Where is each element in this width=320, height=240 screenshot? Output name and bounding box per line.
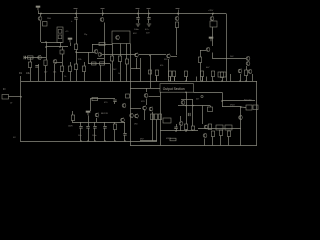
wire — [180, 116, 182, 121]
resistor R18 — [244, 70, 247, 76]
wire VAS drop — [150, 56, 152, 89]
resistor R12 — [74, 44, 77, 50]
wire — [88, 128, 90, 141]
wire — [76, 50, 78, 59]
wire right edge drop — [256, 81, 258, 146]
transistor Q9 — [135, 53, 139, 58]
transistor Q18 — [121, 118, 125, 123]
wire — [171, 56, 177, 58]
resistor R30 — [150, 114, 153, 120]
transistor Q23 — [130, 113, 134, 118]
wire — [148, 19, 150, 23]
wire — [124, 135, 126, 141]
diode D3 mark — [58, 30, 62, 34]
wire — [240, 128, 242, 146]
capacitor C9 — [93, 127, 96, 129]
label net name — [74, 8, 78, 10]
svg-text:Speaker: Speaker — [244, 99, 252, 102]
wire emitter row — [88, 63, 110, 65]
node rail-Q4 — [102, 13, 104, 15]
resistor R6 — [28, 62, 31, 68]
transistor Q12 — [206, 47, 210, 52]
wire — [136, 58, 138, 69]
wire — [156, 134, 158, 141]
resistor R9 — [68, 66, 71, 72]
connector J1 input jack — [2, 95, 9, 100]
wire — [104, 59, 106, 64]
wire input column — [20, 81, 22, 141]
wire — [76, 58, 78, 64]
diode D5 pair — [99, 42, 105, 45]
wire — [181, 99, 193, 101]
wire — [200, 50, 202, 57]
capacitor C6 — [147, 18, 150, 20]
wire box top right segment — [194, 92, 223, 94]
resistor R42 box — [208, 107, 213, 112]
wire — [114, 102, 116, 104]
wire — [228, 137, 230, 146]
resistor R20 — [168, 71, 171, 77]
svg-text:+35V: +35V — [208, 10, 214, 12]
wire stub — [196, 77, 198, 82]
resistor R23 — [200, 71, 203, 77]
node rail-Q8 — [177, 13, 179, 15]
resistor R44 — [148, 70, 151, 74]
wire net tick — [76, 10, 78, 14]
wire — [62, 47, 64, 50]
wire — [212, 27, 214, 46]
diode D1 box — [60, 50, 64, 54]
wire — [124, 122, 126, 133]
wire left bias row — [24, 57, 46, 59]
node rail-C6 — [148, 13, 150, 15]
capacitor C7 — [79, 127, 82, 129]
wire output row — [222, 106, 241, 108]
resistor R36 — [208, 124, 211, 130]
transistor Q16 — [248, 69, 252, 74]
wire — [38, 68, 40, 81]
wire — [176, 124, 178, 127]
wire — [144, 110, 146, 120]
resistor R17 — [198, 57, 201, 63]
capacitor C5 — [136, 18, 139, 20]
transistor Q21 — [143, 106, 147, 111]
wire rail right drop — [226, 14, 228, 82]
resistor R16 box — [210, 21, 217, 27]
wire — [70, 62, 72, 66]
capacitor C2 — [24, 56, 26, 59]
wire — [168, 59, 170, 81]
wire net tick — [138, 10, 140, 14]
resistor R46 — [118, 56, 121, 62]
wire — [212, 137, 214, 146]
wire V+ top rail — [38, 13, 226, 15]
wire net tick — [102, 10, 104, 14]
svg-text:100R: 100R — [68, 126, 73, 128]
node — [59, 46, 61, 48]
wire stub — [186, 77, 188, 82]
wire bias row right — [213, 58, 246, 60]
node output junction — [240, 106, 242, 108]
wire — [140, 58, 142, 82]
wire net tick — [148, 10, 150, 14]
wire — [146, 88, 148, 92]
transistor Q4 — [100, 17, 104, 22]
diode D4 mark — [58, 35, 62, 39]
wire — [100, 65, 102, 81]
wire input — [9, 96, 22, 98]
wire — [246, 66, 248, 70]
svg-text:10u: 10u — [78, 135, 81, 137]
resistor R26 box — [218, 72, 226, 77]
wire — [80, 122, 82, 126]
resistor R4 box — [43, 22, 48, 27]
resistor R22 — [184, 71, 187, 77]
wire — [126, 44, 128, 60]
resistor R47 — [125, 59, 128, 64]
wire — [140, 140, 157, 142]
wire — [126, 64, 128, 82]
wire — [70, 72, 72, 82]
transistor Q22 — [149, 107, 153, 112]
wire — [104, 122, 106, 126]
transistor Q29 — [179, 121, 183, 126]
wire output box left edge — [130, 44, 132, 146]
resistor R27 — [71, 115, 74, 121]
transistor Q15 — [238, 69, 242, 74]
wire — [200, 50, 206, 52]
node rail-C5 — [137, 13, 139, 15]
resistor R35 — [191, 126, 194, 130]
wire net tick — [178, 10, 180, 14]
wire — [240, 74, 242, 81]
wire — [88, 122, 90, 126]
wire — [212, 53, 214, 60]
svg-text:22p: 22p — [84, 34, 87, 36]
wire mid rail — [21, 81, 257, 83]
power flag driver supply — [86, 111, 90, 115]
transistor Q14 — [246, 61, 250, 66]
wire bias spreader drop — [186, 92, 188, 99]
resistor R10 — [74, 64, 77, 70]
transistor Q19 — [122, 103, 126, 108]
resistor R28 — [113, 124, 116, 130]
transistor Q7 — [98, 52, 102, 57]
wire — [200, 63, 202, 82]
wire — [80, 128, 82, 141]
resistor R11 — [82, 66, 85, 72]
resistor R25 — [220, 72, 223, 78]
wire — [252, 74, 254, 81]
wire flag stem — [38, 11, 40, 14]
resistor R38 box — [225, 125, 232, 130]
capacitor C11 — [113, 100, 116, 102]
box input stage outline — [112, 31, 130, 44]
wire — [120, 62, 122, 82]
transistor Q26 — [203, 133, 207, 138]
wire — [212, 14, 214, 16]
resistor R5 — [28, 56, 34, 59]
wire — [30, 68, 32, 82]
wire stub — [174, 77, 176, 82]
wire stub — [156, 77, 158, 82]
transistor Q6 — [94, 49, 98, 54]
power flag right — [209, 37, 213, 41]
wire — [192, 100, 194, 127]
wire — [62, 54, 64, 66]
wire — [204, 139, 206, 146]
capacitor C10 — [103, 127, 106, 129]
label net name — [147, 8, 151, 10]
wire — [60, 43, 62, 48]
wire output node row — [160, 130, 198, 132]
wire stub — [170, 77, 172, 82]
wire — [94, 122, 96, 126]
wire box bottom edge — [130, 145, 257, 147]
wire — [120, 44, 122, 57]
node — [75, 51, 77, 53]
transistor Q3 — [53, 59, 57, 64]
label net name — [101, 8, 105, 10]
resistor R45 — [110, 56, 113, 61]
fuse F1 box — [246, 105, 252, 110]
wire — [76, 70, 78, 82]
capacitor C13 — [123, 134, 126, 136]
wire — [131, 68, 140, 70]
wire — [102, 14, 104, 17]
svg-text:100n: 100n — [92, 135, 96, 137]
transistor Q11 — [210, 16, 214, 21]
wire — [176, 28, 178, 56]
wire — [156, 120, 158, 135]
wire — [148, 14, 150, 18]
wire — [240, 107, 242, 128]
wire — [90, 99, 92, 111]
resistor R39 — [211, 131, 214, 137]
resistor R29 — [92, 97, 98, 100]
svg-text:Output Section: Output Section — [163, 87, 185, 91]
transistor Q2 — [38, 55, 42, 60]
wire — [84, 72, 86, 82]
wire bias feed — [41, 42, 62, 44]
power flag mid — [68, 38, 72, 42]
wire — [152, 134, 154, 141]
transistor Q13 — [246, 56, 250, 61]
node thermal junction — [201, 95, 203, 97]
wire bias link — [90, 98, 115, 100]
resistor R19 — [155, 70, 158, 76]
box output section title — [160, 84, 194, 93]
wire — [92, 44, 94, 52]
resistor R33 box — [163, 118, 171, 123]
svg-text:IN: IN — [3, 88, 6, 91]
wire mirror row — [92, 44, 112, 46]
wire — [40, 14, 42, 17]
svg-text:1R0: 1R0 — [134, 124, 137, 126]
transistor Q17 — [95, 113, 99, 118]
wire — [76, 14, 78, 18]
wire — [210, 106, 212, 108]
power flag +V supply left — [36, 6, 40, 10]
wire stub — [202, 77, 204, 82]
resistor R41 — [227, 131, 230, 137]
wire — [76, 19, 78, 44]
wire — [94, 128, 96, 141]
resistor R43 emitter — [170, 138, 176, 141]
resistor R34 — [184, 124, 187, 130]
wire stub — [206, 77, 208, 82]
wire — [198, 128, 241, 130]
wire diff pair to VAS — [102, 54, 136, 56]
wire — [138, 14, 140, 18]
resistor R13 — [92, 62, 97, 65]
capacitor C12 — [174, 127, 177, 129]
node rail-Q11 — [212, 13, 214, 15]
wire — [30, 58, 32, 63]
diode D2 box — [126, 94, 130, 98]
wire — [88, 52, 90, 64]
wire — [38, 64, 40, 68]
capacitor C14 — [188, 113, 190, 116]
wire speaker out — [222, 100, 255, 102]
wire — [152, 112, 154, 134]
wire — [202, 106, 204, 125]
resistor R37 box — [216, 125, 223, 130]
resistor R40 — [219, 130, 222, 136]
wire — [40, 21, 42, 42]
regulator U1 box — [57, 27, 63, 43]
wire — [146, 99, 148, 106]
wire — [130, 108, 141, 110]
wire — [178, 14, 180, 16]
transistor Q28 output — [239, 115, 243, 120]
label net name — [176, 8, 180, 10]
wire — [138, 19, 140, 23]
wire VAS link — [139, 54, 166, 56]
wire — [104, 128, 106, 141]
resistor R31 — [154, 114, 157, 120]
transistor Q1 — [38, 16, 42, 21]
wire — [149, 96, 161, 98]
wire driver rail — [72, 122, 125, 124]
wire — [54, 64, 56, 81]
ground G1 — [136, 24, 140, 26]
wire — [220, 136, 222, 146]
transistor Q10 — [167, 54, 171, 59]
transistor Q20 — [144, 93, 148, 98]
resistor R14 — [100, 62, 105, 65]
wire — [84, 62, 86, 66]
wire — [114, 122, 116, 124]
wire — [104, 23, 106, 59]
wire — [110, 64, 112, 82]
capacitor C4 — [35, 66, 38, 68]
wire output node drop — [222, 92, 224, 107]
wire — [246, 76, 248, 82]
resistor R24 — [211, 71, 214, 77]
wire — [88, 116, 90, 123]
connector output terminal box — [253, 105, 258, 110]
wire — [112, 61, 114, 82]
transistor Q8 — [175, 16, 179, 21]
wire — [186, 100, 188, 125]
wire — [62, 72, 64, 82]
resistor R7 — [44, 60, 47, 66]
capacitor C1 decoupling — [74, 18, 77, 20]
svg-text:100n: 100n — [134, 29, 140, 31]
wire — [72, 111, 74, 115]
svg-text:BD139: BD139 — [101, 113, 108, 115]
resistor R21 — [172, 71, 175, 77]
wire — [46, 58, 48, 61]
wire — [180, 126, 182, 131]
transistor Q24 — [135, 114, 139, 119]
wire — [112, 44, 114, 57]
node top rail junction A — [40, 13, 42, 15]
label net name — [136, 8, 140, 10]
capacitor C8 — [86, 127, 89, 129]
wire diff emitters — [97, 58, 104, 60]
wire vbe row — [178, 105, 210, 107]
wire diff pair base left — [76, 52, 94, 54]
wire — [160, 92, 162, 146]
wire box top left segment — [130, 88, 160, 90]
transistor Q27 bias — [181, 100, 185, 105]
wire — [46, 42, 48, 58]
resistor R32 — [158, 114, 161, 120]
transistor Q25 — [204, 125, 208, 130]
wire — [46, 46, 68, 48]
transistor Q5 — [116, 35, 120, 40]
node — [45, 41, 47, 43]
resistor R8 — [60, 66, 63, 72]
svg-text:22k: 22k — [53, 72, 56, 74]
resistor R15 — [175, 22, 178, 28]
wire ground rail — [20, 141, 157, 143]
wire input node drop — [20, 76, 22, 81]
wire — [114, 130, 116, 142]
wire — [45, 66, 47, 82]
node rail-C1 — [75, 13, 77, 15]
wire stub — [230, 74, 232, 81]
wire — [241, 106, 246, 109]
wire — [70, 43, 72, 47]
wire — [55, 62, 62, 64]
wire — [96, 118, 98, 122]
ground G2 — [147, 24, 151, 26]
